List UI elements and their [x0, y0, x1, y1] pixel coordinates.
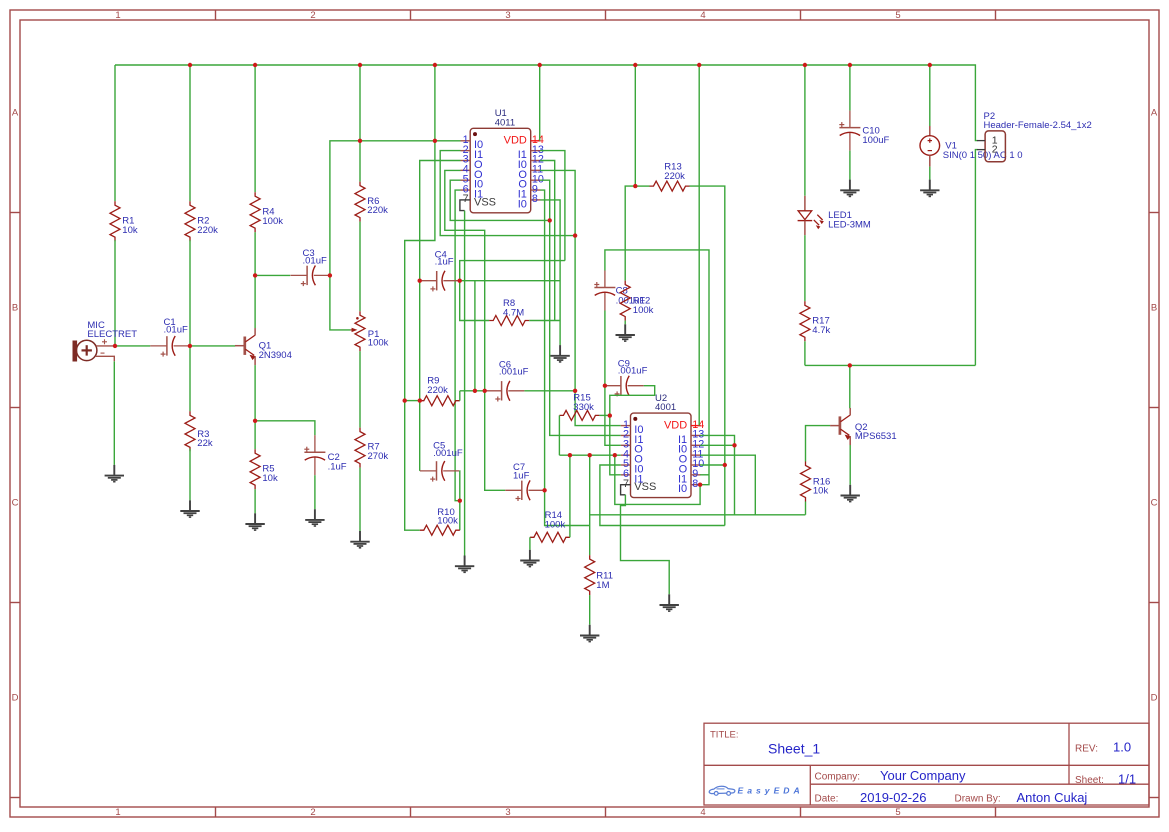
svg-text:2N3904: 2N3904: [259, 350, 292, 361]
ground V1: [920, 180, 939, 197]
svg-text:I0: I0: [678, 483, 687, 495]
resistor R7: [355, 428, 365, 468]
wire R12 bottom: [624, 321, 626, 325]
svg-text:A: A: [1151, 108, 1158, 119]
resistor R4: [250, 192, 260, 232]
node rail junction R6: [358, 63, 362, 67]
node R9 left a: [403, 398, 407, 402]
header P2: [985, 131, 1005, 162]
capacitor C10: [839, 111, 860, 151]
node rail junction C10: [848, 63, 852, 67]
svg-text:VSS: VSS: [634, 481, 656, 493]
svg-text:Anton Cukaj: Anton Cukaj: [1017, 790, 1088, 805]
svg-text:2: 2: [310, 807, 315, 818]
wire R8 left: [460, 281, 490, 321]
node C7 right / pin9: [542, 488, 546, 492]
wire R17 bottom lead: [804, 341, 806, 365]
node Q1 emitter / R5 / C2: [253, 419, 257, 423]
wire U1 pin13 down: [540, 151, 565, 261]
wire P2 pin2 to AC return: [975, 150, 977, 366]
IC U1: [470, 128, 531, 213]
node U2 pin8 node: [698, 483, 702, 487]
wire R14 right riser: [569, 455, 571, 537]
capacitor C9: [604, 376, 643, 395]
capacitor C7: [505, 481, 544, 500]
svg-text:100k: 100k: [545, 519, 566, 530]
svg-text:Company:: Company:: [815, 772, 861, 783]
wire P1 bottom: [359, 351, 361, 427]
wire U1 pin11 to U2 pin1: [540, 170, 621, 425]
node pin4 / pin8 riser: [613, 453, 617, 457]
wire U1 pin1 net: [330, 141, 461, 330]
resistor R6: [355, 182, 365, 222]
ground R12: [616, 324, 635, 341]
wire Q1 collector: [254, 275, 256, 328]
wire U2 pin4 line: [559, 454, 620, 456]
svg-text:22k: 22k: [197, 438, 213, 449]
svg-text:.01uF: .01uF: [164, 324, 188, 335]
wire R13 right down: [690, 186, 725, 525]
microphone MIC ELECTRET: [73, 341, 78, 362]
wire R2 bottom: [189, 240, 191, 346]
wire R8 right: [529, 320, 560, 322]
wire C2 bottom: [314, 475, 316, 509]
wire U2 pin12: [700, 444, 734, 446]
node C6 left branch: [473, 389, 477, 393]
svg-text:.001uF: .001uF: [499, 367, 529, 378]
resistor R2: [185, 201, 195, 241]
ground R3: [180, 500, 199, 517]
node R15 right / C9 / U2 pin6: [608, 413, 612, 417]
svg-text:Date:: Date:: [815, 794, 839, 805]
resistor R1: [110, 201, 120, 241]
LED LED1: [804, 196, 806, 211]
wire R15 right link: [599, 414, 609, 416]
svg-text:10k: 10k: [813, 486, 829, 497]
wire R3 top: [189, 346, 191, 411]
wire U1 pin8 down: [540, 200, 560, 345]
svg-text:4.7M: 4.7M: [503, 307, 524, 318]
ground R11: [580, 625, 599, 642]
svg-text:ELECTRET: ELECTRET: [87, 329, 137, 340]
wire U1 pin9 down: [540, 190, 590, 525]
wire oscillator long run: [590, 514, 806, 516]
svg-text:A: A: [12, 108, 19, 119]
wire C3 left: [255, 274, 290, 276]
svg-text:REV:: REV:: [1075, 744, 1098, 755]
ground U1 VSS: [455, 556, 474, 573]
capacitor C3: [291, 266, 330, 285]
svg-text:1: 1: [115, 10, 120, 21]
svg-text:LED-3MM: LED-3MM: [828, 219, 871, 230]
wire R16 bottom: [805, 502, 807, 515]
ground R14: [520, 550, 539, 567]
node C6 left / pin4 riser: [483, 389, 487, 393]
title block: [704, 723, 1149, 805]
resistor R17: [800, 301, 810, 341]
node C9 left: [603, 384, 607, 388]
svg-text:D: D: [12, 693, 19, 704]
node rail junction U2 pin14: [697, 63, 701, 67]
wire U2 pin14 from rail: [698, 65, 700, 426]
wire C5 right down: [459, 471, 461, 530]
capacitor C6: [485, 381, 524, 400]
wire U2 pin9: [700, 474, 709, 476]
wire U1 pin2 to U2-pin1 net: [440, 151, 575, 236]
node R6 column / pin1 wire junction: [358, 139, 362, 143]
wire R1 bottom: [114, 240, 116, 346]
svg-text:MPS6531: MPS6531: [855, 431, 897, 442]
svg-text:SIN(0 1 50) AC 1 0: SIN(0 1 50) AC 1 0: [943, 150, 1023, 161]
svg-text:.1uF: .1uF: [328, 461, 347, 472]
wire R13 left from rail: [634, 65, 636, 186]
svg-text:C: C: [1151, 498, 1158, 509]
ground R8 right: [550, 345, 569, 362]
wire R6 top: [359, 65, 361, 182]
node pin4 / R11 riser: [588, 453, 592, 457]
resistor R12: [620, 281, 630, 321]
node rail junction R2: [188, 63, 192, 67]
IC U2: [631, 413, 692, 498]
wire U2 pin5 run: [600, 465, 725, 526]
wire C8 bottom to U2 pin3: [605, 311, 621, 446]
wire C4 to U1 pin8 run: [460, 280, 560, 282]
svg-text:220k: 220k: [367, 205, 388, 216]
svg-text:100k: 100k: [368, 337, 389, 348]
wire C10 top: [849, 65, 851, 111]
wire R7 bottom: [359, 468, 361, 531]
wire R11 bottom: [589, 595, 591, 625]
wire R11 riser: [589, 455, 591, 555]
svg-text:8: 8: [532, 193, 538, 205]
svg-text:1: 1: [115, 807, 120, 818]
node C6 right / pin11: [573, 389, 577, 393]
wire C8 top run: [605, 250, 709, 485]
node R13 / U2 pin10: [723, 463, 727, 467]
capacitor C1: [150, 336, 189, 355]
svg-text:Sheet_1: Sheet_1: [768, 741, 820, 757]
svg-text:VDD: VDD: [664, 419, 687, 431]
svg-text:3: 3: [505, 807, 510, 818]
svg-text:100uF: 100uF: [862, 135, 889, 146]
svg-text:VSS: VSS: [474, 196, 496, 208]
wire R15 left riser: [558, 415, 560, 455]
transistor Q1: [243, 337, 246, 355]
ground MIC: [105, 465, 124, 482]
wire U2 pin6 from C9 node: [610, 416, 621, 475]
resistor R10: [420, 525, 460, 535]
svg-text:1M: 1M: [596, 580, 609, 591]
transistor Q2: [839, 416, 842, 434]
EasyEDA logo: [709, 786, 735, 795]
wire U1 pin10 to U2 pin2: [540, 180, 621, 435]
svg-text:7: 7: [463, 193, 469, 205]
wire U1 pin3 to C5: [420, 161, 461, 471]
node rail junction U1 pin14: [538, 63, 542, 67]
capacitor C2: [304, 435, 325, 475]
node pin12/pin13 junction: [732, 443, 736, 447]
wire U2 pin11 down: [700, 455, 755, 515]
wire R5 bottom: [254, 489, 256, 513]
svg-text:330k: 330k: [573, 402, 594, 413]
wire U1 pin7 jog: [460, 200, 465, 211]
wire R4 top: [254, 65, 256, 192]
svg-text:8: 8: [692, 478, 698, 490]
wire U1 pin7 to ground: [464, 211, 466, 556]
wire C1 to Q1 base: [190, 345, 235, 347]
wire LED to R17: [804, 235, 806, 301]
capacitor C8: [594, 271, 615, 311]
svg-text:10k: 10k: [262, 473, 278, 484]
node pin5/pin10 junction: [548, 218, 552, 222]
wire R10 left: [405, 401, 420, 531]
resistor R3: [185, 411, 195, 451]
svg-text:B: B: [1151, 303, 1157, 314]
svg-text:Your Company: Your Company: [880, 768, 966, 783]
node pin2/pin11 junction: [573, 233, 577, 237]
wire R13 left link: [635, 185, 649, 187]
wire C9 right jog: [610, 386, 655, 416]
node rail junction R13: [633, 63, 637, 67]
wire R2 top: [189, 65, 191, 201]
node mic output: [113, 344, 117, 348]
wire R1 top: [114, 65, 116, 201]
resistor R15: [559, 410, 599, 420]
svg-text:100k: 100k: [437, 516, 458, 527]
svg-text:EasyEDA: EasyEDA: [738, 785, 804, 795]
svg-text:4: 4: [700, 10, 705, 21]
svg-text:B: B: [12, 303, 18, 314]
ground Q2 emitter: [841, 485, 860, 502]
wire C6 right run: [524, 390, 575, 392]
svg-text:100k: 100k: [633, 305, 654, 316]
wire U2 pin8 to pin4 run: [615, 455, 700, 504]
voltage source V1: [929, 126, 931, 136]
wire C10 bottom: [849, 151, 851, 180]
svg-text:2: 2: [310, 10, 315, 21]
wire U1 pin14 from rail: [539, 65, 541, 141]
svg-text:5: 5: [895, 10, 900, 21]
resistor R9: [420, 396, 460, 406]
wire V1 top: [929, 65, 931, 126]
ground R5: [245, 513, 264, 530]
svg-text:4011: 4011: [495, 117, 515, 128]
wire VDD rail: [115, 65, 977, 141]
wire C6 branch riser: [474, 281, 476, 391]
svg-text:100k: 100k: [262, 216, 283, 227]
wire R14 left: [529, 537, 531, 550]
resistor R16: [801, 462, 811, 502]
node C3 left / R4 / Q1 collector: [253, 273, 257, 277]
wire U2 pin10: [700, 464, 725, 466]
svg-text:TITLE:: TITLE:: [710, 730, 739, 741]
svg-text:220k: 220k: [664, 171, 685, 182]
svg-text:270k: 270k: [368, 451, 389, 462]
resistor R13: [650, 181, 690, 191]
wire Q2 base to R16: [806, 426, 831, 462]
wire Q2 collector: [849, 365, 851, 408]
wire Q1 emitter: [254, 365, 256, 421]
wire U1 pin6 down: [455, 190, 460, 501]
potentiometer P1: [355, 311, 365, 351]
wire U1 pin12 down: [540, 161, 555, 321]
node C4 left: [418, 279, 422, 283]
node rail junction R4: [253, 63, 257, 67]
wire R9 right riser: [459, 391, 461, 401]
svg-text:D: D: [1151, 693, 1158, 704]
wire R9 left link: [405, 400, 420, 402]
svg-text:1.0: 1.0: [1113, 740, 1131, 755]
wire R5 top: [254, 421, 256, 449]
ground C2: [305, 509, 324, 526]
node R9 left b: [418, 398, 422, 402]
svg-text:.001uF: .001uF: [433, 448, 463, 459]
wire MIC to C1: [115, 345, 150, 347]
wire U1 pin1 branch: [405, 65, 435, 401]
node C4 right: [458, 279, 462, 283]
svg-text:2019-02-26: 2019-02-26: [860, 790, 927, 805]
svg-text:2: 2: [992, 143, 998, 155]
svg-text:C: C: [12, 498, 19, 509]
svg-text:220k: 220k: [197, 225, 218, 236]
svg-text:7: 7: [623, 478, 629, 490]
svg-text:I0: I0: [518, 198, 527, 210]
svg-text:VDD: VDD: [504, 135, 527, 147]
svg-text:Header-Female-2.54_1x2: Header-Female-2.54_1x2: [984, 120, 1092, 131]
svg-text:Sheet:: Sheet:: [1075, 775, 1104, 786]
wire C6 left run: [460, 390, 485, 392]
wire V1 bottom: [929, 167, 931, 180]
wire U2 pin13 down: [700, 435, 734, 514]
wire U2 pin7 to ground: [621, 495, 670, 595]
wire LED top: [804, 65, 806, 196]
svg-text:1uF: 1uF: [513, 471, 530, 482]
resistor R11: [585, 555, 595, 595]
svg-text:.1uF: .1uF: [435, 256, 454, 267]
wire Q2 emitter: [849, 445, 851, 485]
svg-text:Drawn By:: Drawn By:: [955, 794, 1001, 805]
wire R12 top feed: [625, 186, 635, 281]
node C5 right / R10 / pin6: [458, 499, 462, 503]
node rail junction LED1: [803, 63, 807, 67]
node R13 left: [633, 184, 637, 188]
wire U2 pin7 jog: [621, 485, 626, 495]
svg-text:.001uF: .001uF: [618, 366, 648, 377]
wire R4 bottom: [254, 232, 256, 275]
wire R6 to P1: [359, 222, 361, 312]
svg-text:4: 4: [700, 807, 705, 818]
node C3 right: [328, 273, 332, 277]
node C1 right / R2 / Q1 base: [188, 344, 192, 348]
wire C4 right upper link: [460, 261, 565, 281]
svg-text:5: 5: [895, 807, 900, 818]
ground C10: [840, 180, 859, 197]
capacitor C4: [420, 271, 459, 290]
wire R3 bottom: [189, 449, 191, 500]
svg-text:10k: 10k: [122, 225, 138, 236]
svg-text:.01uF: .01uF: [303, 256, 327, 267]
wire emitter to C2: [255, 421, 315, 435]
capacitor C5: [420, 461, 459, 480]
resistor R8: [489, 316, 529, 326]
resistor R5: [250, 449, 260, 489]
svg-text:220k: 220k: [427, 385, 448, 396]
node pin4 / R14 riser: [568, 453, 572, 457]
wire R17 bottom run: [805, 364, 976, 366]
ground U2 VSS: [660, 594, 679, 611]
wire U1 pin4 to C7: [445, 170, 505, 490]
node rail junction V1: [928, 63, 932, 67]
svg-text:4.7k: 4.7k: [812, 325, 830, 336]
resistor R14: [530, 532, 570, 542]
svg-text:1/1: 1/1: [1118, 771, 1136, 786]
node rail junction U1 col: [433, 63, 437, 67]
ground R7: [350, 531, 369, 548]
node Q2 collector node: [848, 363, 852, 367]
svg-text:3: 3: [505, 10, 510, 21]
node U1 pin1 junction: [433, 139, 437, 143]
svg-text:4001: 4001: [655, 402, 676, 413]
wire U1 pin5 to pin10 riser: [450, 180, 550, 220]
wire MIC to ground: [113, 361, 115, 465]
